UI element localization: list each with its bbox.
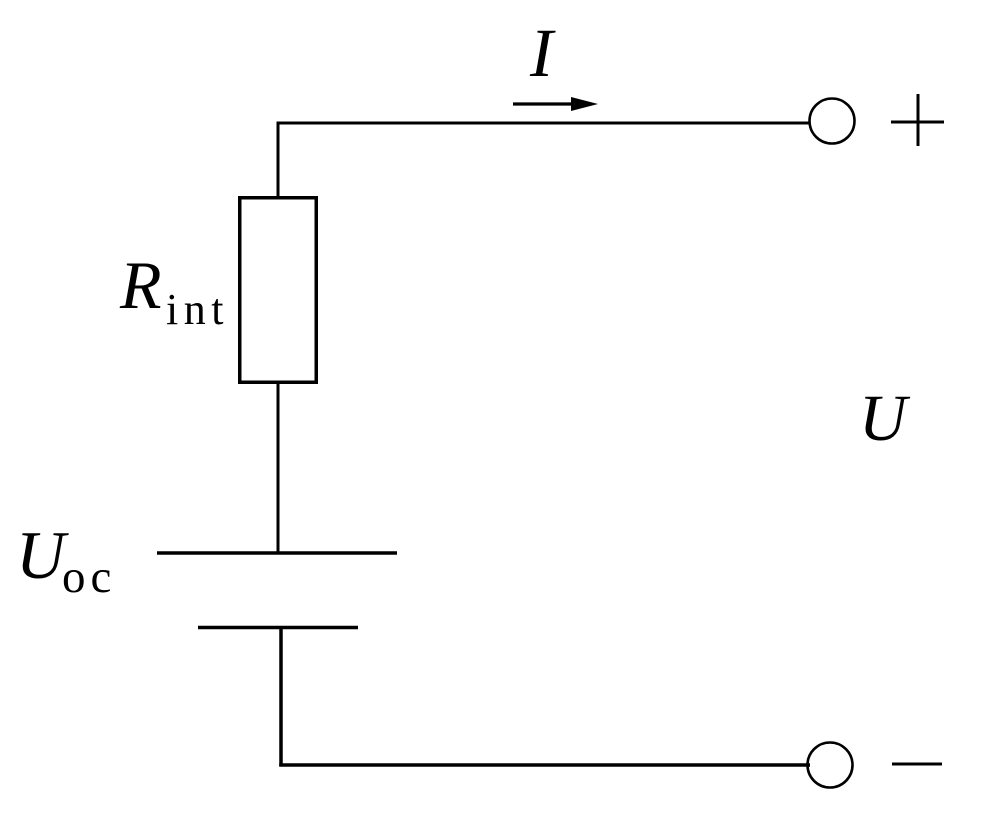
svg-text:int: int [166,285,229,334]
svg-text:U: U [859,382,911,455]
svg-text:oc: oc [62,551,116,603]
svg-text:I: I [529,15,556,91]
svg-text:R: R [119,247,162,323]
